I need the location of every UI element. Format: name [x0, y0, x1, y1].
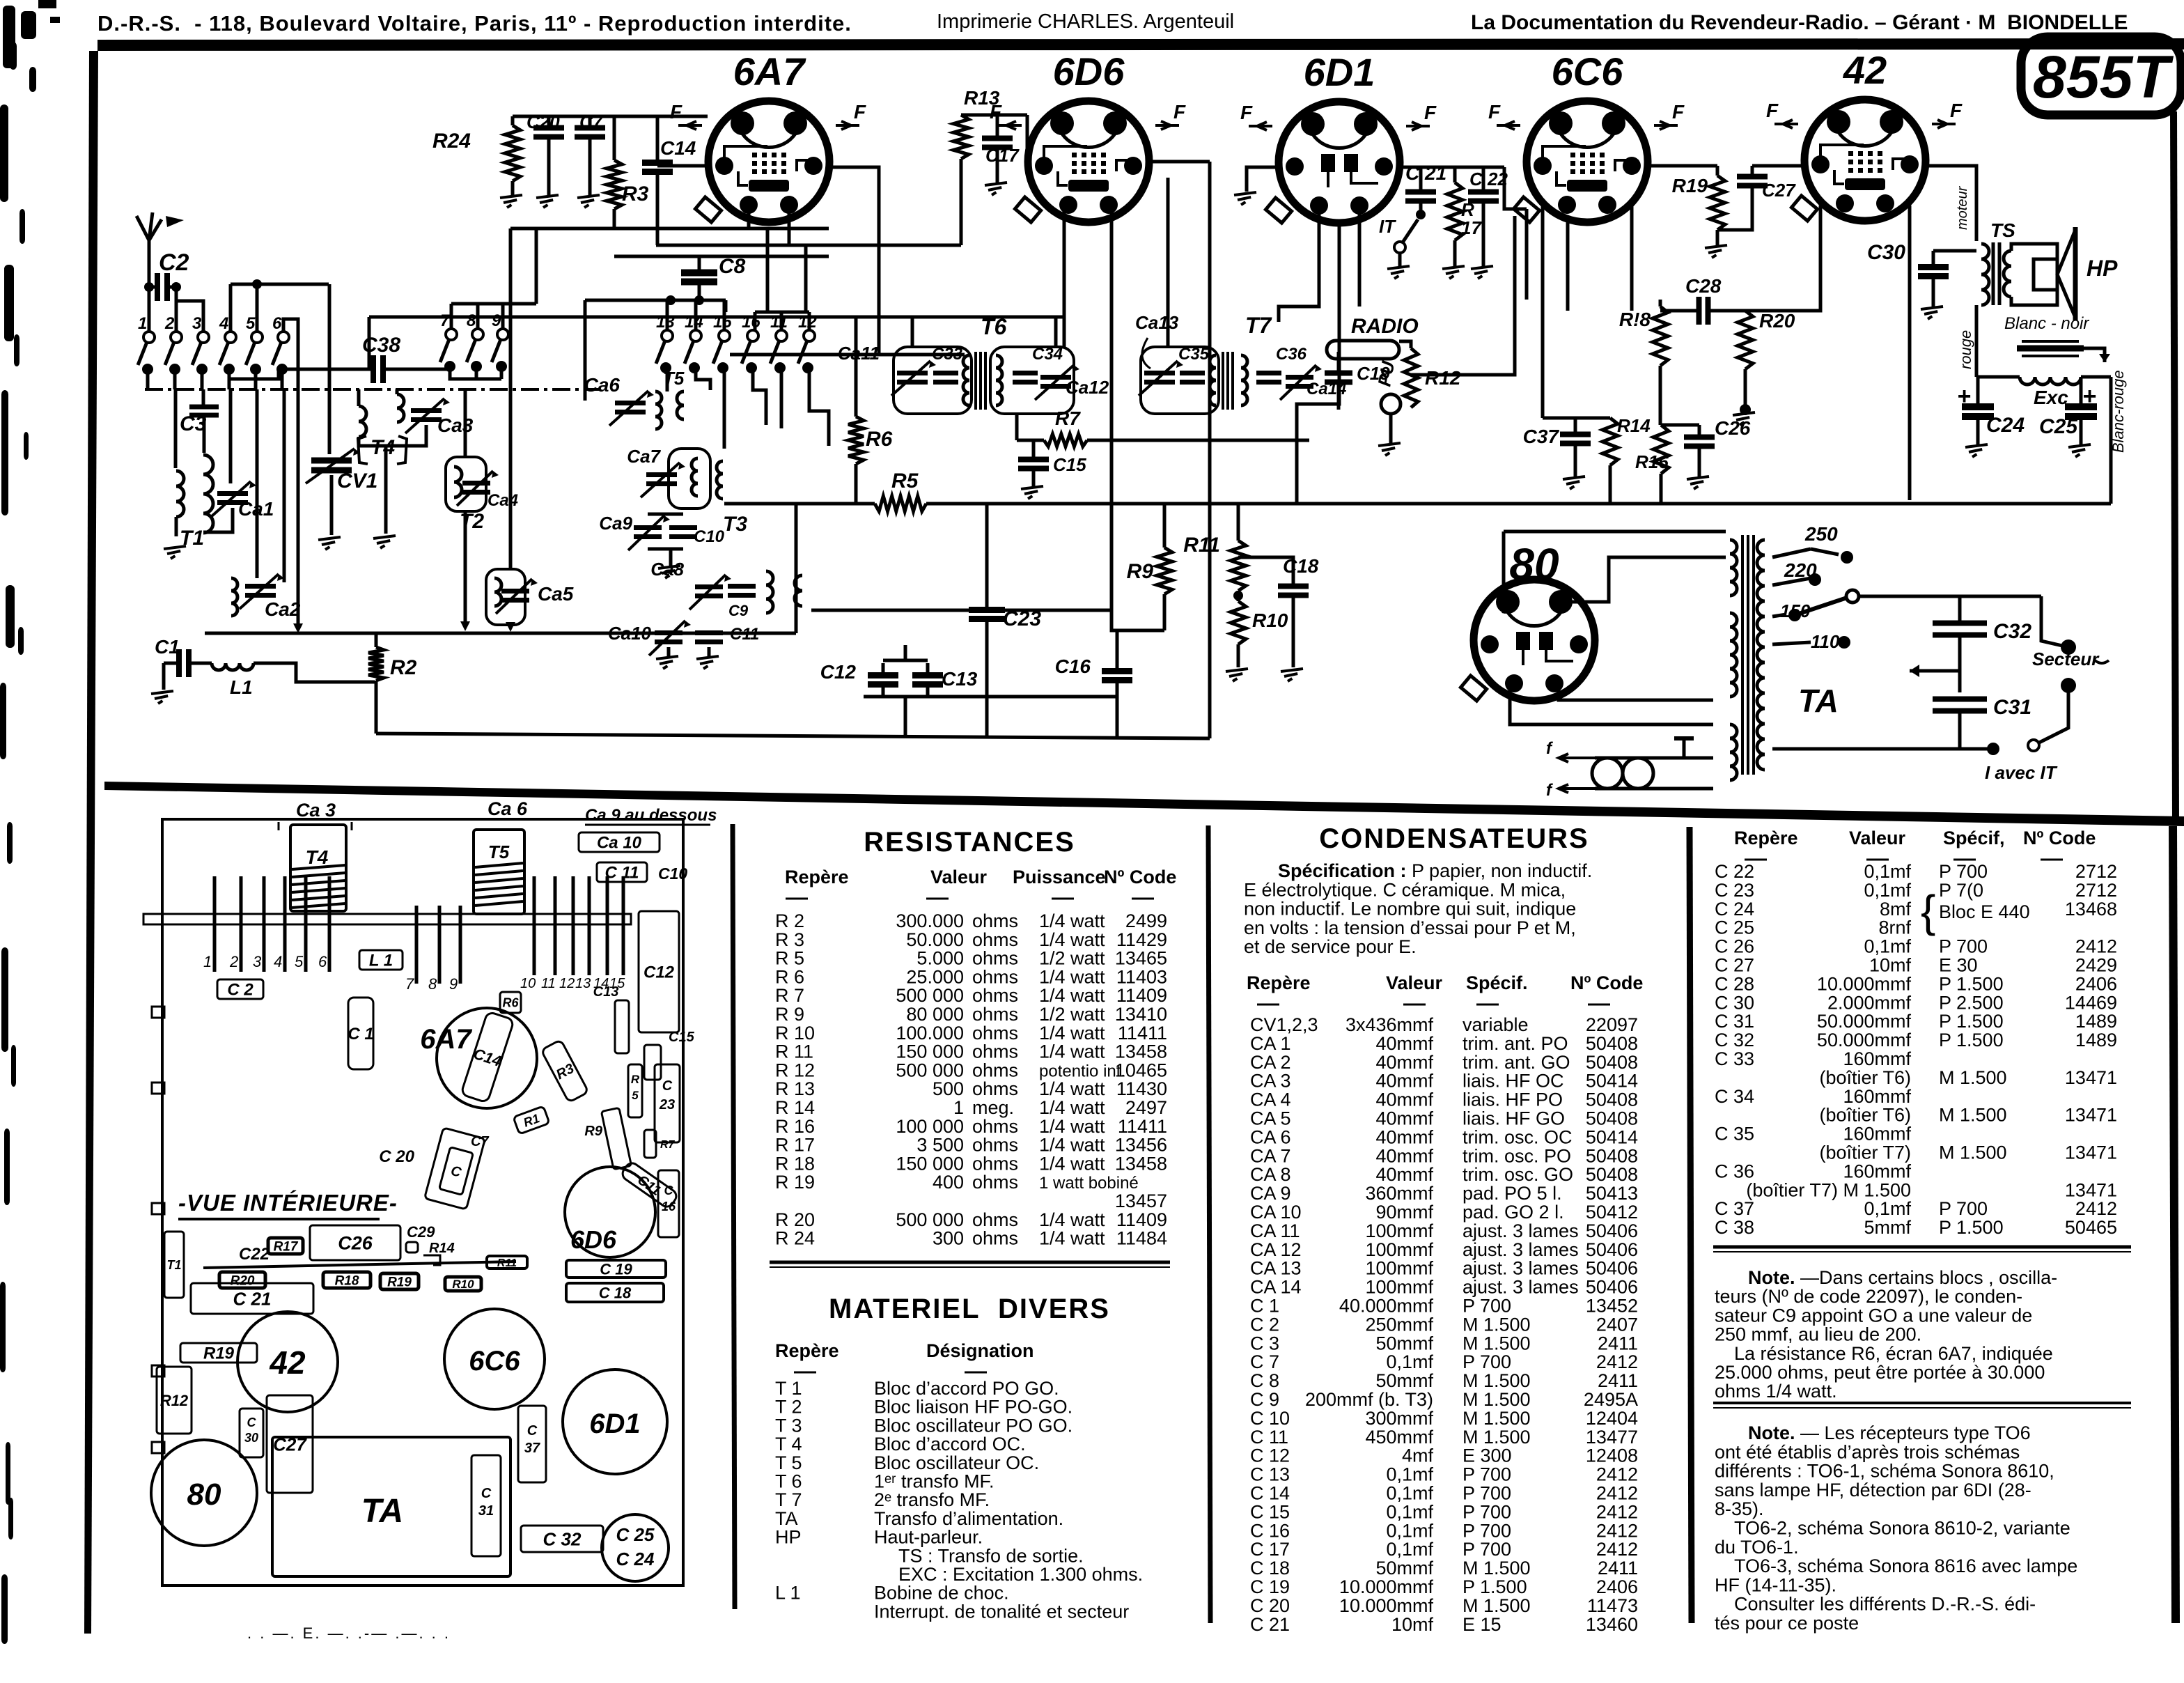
chassis pin lines 1-6	[213, 876, 217, 972]
svg-text:C: C	[664, 1184, 674, 1197]
svg-text:6C6: 6C6	[469, 1346, 520, 1376]
wire bus AVC	[205, 632, 796, 635]
svg-text:C: C	[527, 1423, 538, 1438]
svg-text:C34: C34	[1032, 345, 1063, 364]
wire left riser x428	[297, 390, 300, 628]
svg-text:30: 30	[244, 1431, 258, 1445]
svg-text:. . —. E. —. .-— .—. . .: . . —. E. —. .-— .—. . .	[247, 1624, 451, 1642]
svg-text:R17: R17	[274, 1239, 299, 1254]
svg-text:C25: C25	[2039, 415, 2078, 438]
svg-text:11: 11	[541, 976, 556, 991]
capacitor C26	[1684, 435, 1715, 440]
svg-text:T3: T3	[723, 513, 747, 536]
resistor R24	[505, 125, 520, 181]
svg-text:13457: 13457	[1115, 1190, 1167, 1211]
TA rect	[272, 1437, 510, 1576]
wire bus H3	[656, 244, 961, 247]
svg-text:C: C	[247, 1416, 257, 1429]
C2 box	[217, 979, 263, 1000]
svg-text:C37: C37	[1523, 426, 1560, 447]
svg-text:différents : TO6-1, schéma Son: différents : TO6-1, schéma Sonora 8610,	[1715, 1461, 2054, 1482]
svg-text:37: 37	[524, 1441, 540, 1456]
svg-text:5: 5	[246, 314, 256, 333]
svg-text:C36: C36	[1276, 345, 1307, 364]
svg-text:R14: R14	[429, 1241, 455, 1256]
wire selector to C32	[1859, 595, 2041, 598]
svg-text:EXC : Excitation 1.300 ohms.: EXC : Excitation 1.300 ohms.	[898, 1564, 1143, 1585]
left margin scan noise	[3, 6, 15, 68]
variable capacitor CV1	[328, 284, 331, 454]
capacitor C32	[1933, 621, 1987, 626]
resistor R13	[953, 115, 969, 159]
field coil EXC	[2020, 377, 2081, 385]
R12 rect	[157, 1367, 192, 1434]
svg-text:16: 16	[662, 1200, 676, 1213]
chassis interior view outline	[162, 819, 683, 1585]
svg-text:F: F	[854, 101, 866, 123]
output terminal bars	[2022, 340, 2079, 343]
resistor R10	[1231, 601, 1246, 644]
svg-text:TO6-3, schéma Sonora 8616 avec: TO6-3, schéma Sonora 8616 avec lampe	[1734, 1556, 2077, 1576]
wire return bus	[376, 734, 1210, 738]
trimmer Ca1	[229, 389, 233, 483]
svg-text:CONDENSATEURS: CONDENSATEURS	[1319, 823, 1589, 854]
resistor R5	[875, 496, 926, 511]
svg-text:TS : Transfo de sortie.: TS : Transfo de sortie.	[898, 1545, 1084, 1566]
chassis pin lines 10-15	[533, 876, 536, 975]
svg-text:La résistance R6, écran 6A7, i: La résistance R6, écran 6A7, indiquée	[1734, 1343, 2053, 1364]
speaker HP	[2034, 259, 2057, 290]
svg-text:ohms 1/4 watt.: ohms 1/4 watt.	[1715, 1381, 1837, 1402]
switch riser wires	[175, 287, 178, 332]
C37 rect	[518, 1406, 546, 1482]
resistor R11	[1231, 541, 1246, 591]
capacitor C3	[202, 389, 205, 406]
wire bus H6	[730, 353, 965, 357]
capacitor C30	[1918, 264, 1949, 270]
svg-text:C26: C26	[338, 1233, 373, 1254]
svg-text:C12: C12	[820, 661, 857, 683]
svg-text:C 22: C 22	[1469, 169, 1508, 189]
6C6 chassis circle	[444, 1309, 545, 1409]
wire bus B+	[724, 502, 875, 506]
svg-text:5: 5	[295, 953, 304, 970]
svg-text:R7: R7	[660, 1139, 676, 1151]
wire T2 down	[464, 511, 467, 623]
C23 rect	[655, 1064, 680, 1142]
svg-text:C14: C14	[660, 137, 696, 159]
svg-text:F: F	[1240, 102, 1253, 123]
svg-text:F: F	[1766, 100, 1779, 121]
T4 block	[290, 825, 346, 911]
svg-text:TS: TS	[1990, 219, 2015, 241]
svg-text:E électrolytique. C céramique.: E électrolytique. C céramique. M mica,	[1244, 879, 1566, 900]
wire 6A7 pin drops	[747, 209, 751, 228]
capacitor C22	[1468, 189, 1499, 195]
svg-text:TA: TA	[361, 1493, 403, 1530]
wire bus H2	[510, 227, 829, 231]
wire antenna down	[148, 279, 151, 332]
svg-text:rouge: rouge	[1957, 330, 1974, 369]
svg-text:13: 13	[575, 976, 591, 991]
svg-text:6A7: 6A7	[420, 1024, 472, 1055]
svg-text:Ca12: Ca12	[1066, 377, 1109, 398]
svg-text:F: F	[1173, 101, 1186, 123]
svg-text:Note. — Les récepteurs type TO: Note. — Les récepteurs type TO6	[1748, 1422, 2031, 1443]
resistor R17	[1447, 183, 1462, 240]
svg-text:Ca 9 au dessous: Ca 9 au dessous	[585, 806, 717, 825]
svg-text:9: 9	[449, 975, 458, 993]
capacitor C7	[575, 125, 605, 131]
dash bus	[145, 388, 599, 391]
svg-text:R5: R5	[891, 470, 919, 493]
T5 block	[474, 830, 524, 914]
R3 diag	[541, 1039, 588, 1102]
capacitor C18	[1278, 584, 1309, 589]
svg-text:6: 6	[272, 314, 282, 333]
svg-text:Interrupt. de tonalité et sect: Interrupt. de tonalité et secteur	[874, 1601, 1129, 1622]
band switch contacts 1-6	[143, 332, 155, 343]
C16 rect	[658, 1170, 679, 1237]
svg-text:(boîtier T7)M 1.50013471: (boîtier T7)M 1.50013471	[1819, 1142, 2117, 1163]
wires 42	[1745, 205, 1820, 311]
svg-text:L1: L1	[230, 676, 253, 698]
svg-text:F: F	[1488, 101, 1501, 123]
svg-text:R6: R6	[502, 995, 519, 1009]
dial rail	[143, 914, 631, 924]
trimmer Ca10 + cap C11	[655, 630, 682, 635]
svg-text:R12: R12	[1425, 367, 1461, 389]
svg-text:L 1: L 1	[369, 952, 393, 970]
svg-text:855T: 855T	[2033, 44, 2174, 111]
svg-text:CV1: CV1	[337, 470, 377, 493]
R7 rect	[644, 1130, 656, 1158]
capacitor C16	[1102, 668, 1132, 674]
svg-text:RADIO: RADIO	[1351, 315, 1419, 338]
potentiometer R12	[1404, 348, 1418, 408]
svg-text:T5: T5	[488, 841, 510, 862]
C20 C7 cluster	[424, 1128, 485, 1209]
chassis arrow	[1910, 669, 1960, 673]
svg-text:du TO6-1.: du TO6-1.	[1715, 1537, 1799, 1558]
svg-text:Ca 6: Ca 6	[487, 798, 528, 819]
svg-text:6C6: 6C6	[1552, 49, 1624, 93]
svg-text:C 32: C 32	[543, 1528, 582, 1549]
svg-text:R19: R19	[203, 1344, 235, 1363]
R5 rect	[628, 1064, 642, 1117]
resistor R19	[1710, 176, 1725, 230]
svg-text:(boîtier T6)M 1.50013471: (boîtier T6)M 1.50013471	[1819, 1105, 2117, 1126]
svg-text:Ca 3: Ca 3	[296, 800, 336, 821]
6A7 chassis circle	[437, 1008, 537, 1108]
svg-text:12: 12	[559, 976, 575, 991]
model number box 855T	[2021, 37, 2181, 115]
svg-text:T6: T6	[981, 314, 1007, 339]
capacitor C8	[681, 270, 717, 277]
switch I avec IT	[2039, 685, 2068, 743]
svg-text:C17: C17	[985, 145, 1020, 166]
arrow to terminal	[2084, 348, 2105, 362]
wire 6D1 bottom to RADIO	[1297, 223, 1339, 504]
svg-text:Ca4: Ca4	[487, 491, 518, 510]
table separator 2	[1208, 825, 1210, 1623]
svg-text:80: 80	[187, 1478, 221, 1512]
trimmer Ca4	[462, 481, 490, 486]
svg-text:D.-R.-S. - 118, Boulevard Vol: D.-R.-S. - 118, Boulevard Voltaire, Pari…	[97, 11, 852, 36]
top feed wire	[513, 115, 708, 118]
capacitors C12 C13	[868, 672, 898, 678]
header rule	[97, 38, 2184, 51]
transformer TA	[1741, 535, 1744, 775]
svg-text:C32: C32	[1993, 620, 2031, 643]
svg-text:1: 1	[138, 314, 147, 333]
antenna arrow mark	[166, 216, 184, 227]
svg-text:HF (14-11-35).: HF (14-11-35).	[1715, 1574, 1836, 1595]
wires 6D6 pins	[1063, 205, 1066, 347]
svg-text:C: C	[481, 1486, 492, 1501]
chassis side tabs	[152, 1007, 164, 1018]
capacitor C23	[969, 607, 1005, 613]
trimmer Ca9 + cap C10	[634, 525, 662, 530]
svg-text:C27: C27	[1762, 180, 1796, 201]
svg-text:Bloc E 440: Bloc E 440	[1939, 901, 2030, 922]
6D6 chassis circle	[565, 1167, 655, 1257]
svg-text:C 18: C 18	[599, 1284, 632, 1301]
resistor R16	[1653, 425, 1669, 474]
svg-text:17: 17	[1461, 217, 1482, 238]
svg-text:R19: R19	[1672, 175, 1708, 196]
TA bottom wire	[1772, 747, 1993, 751]
capacitor C15	[1018, 457, 1049, 463]
tube 6A7	[695, 101, 829, 222]
svg-text:T7: T7	[1245, 313, 1273, 338]
wires osc block	[666, 367, 669, 391]
svg-text:6: 6	[318, 953, 327, 970]
svg-text:Ca5: Ca5	[538, 583, 574, 605]
T1 module	[164, 1232, 184, 1298]
svg-text:C11: C11	[730, 625, 759, 644]
svg-text:sateur C9 appoint GO a une val: sateur C9 appoint GO a une valeur de	[1715, 1305, 2032, 1326]
trimmer Ca3	[397, 394, 404, 422]
resistor R14	[1602, 418, 1618, 465]
80 chassis circle	[151, 1440, 257, 1546]
svg-text:C 1: C 1	[348, 1025, 373, 1044]
svg-text:Ca 10: Ca 10	[597, 834, 642, 853]
svg-text:250: 250	[1804, 523, 1838, 545]
wire switch manifold	[585, 299, 726, 302]
divider rule between schematic and tables	[104, 782, 2184, 826]
tube 6C6	[1513, 101, 1648, 222]
right border thin (schematic)	[2174, 111, 2176, 819]
svg-text:C13: C13	[593, 984, 619, 1000]
svg-text:C31: C31	[1993, 696, 2031, 719]
capacitor C19	[1325, 371, 1352, 376]
svg-text:TO6-2, schéma Sonora 8610-2, v: TO6-2, schéma Sonora 8610-2, variante	[1734, 1518, 2070, 1539]
svg-text:250 mmf, au lieu de 200.: 250 mmf, au lieu de 200.	[1715, 1324, 1921, 1345]
tube 80	[1460, 580, 1595, 701]
capacitor C17	[982, 136, 1013, 141]
svg-text:R: R	[631, 1073, 640, 1086]
svg-text:et de service pour E.: et de service pour E.	[1244, 936, 1417, 957]
trimmer Ca6	[615, 401, 646, 405]
wire 6A7 left pin	[657, 164, 708, 168]
svg-text:C24: C24	[1986, 414, 2025, 437]
svg-text:Ca7: Ca7	[627, 446, 661, 467]
wire 7-9 dots drop	[450, 366, 501, 379]
svg-text:Ca8: Ca8	[650, 559, 684, 580]
svg-text:8: 8	[428, 975, 437, 993]
transformer T1	[174, 389, 178, 468]
svg-text:C1: C1	[155, 636, 180, 658]
resistor R18	[1653, 307, 1668, 366]
R1 diag	[513, 1106, 549, 1134]
ground CV1	[318, 537, 341, 540]
ground T1	[164, 546, 186, 549]
svg-text:9: 9	[492, 311, 501, 330]
resistor R9	[1157, 548, 1172, 594]
svg-text:C30: C30	[1867, 241, 1905, 264]
svg-text:C13: C13	[942, 668, 978, 690]
svg-text:C10: C10	[658, 864, 687, 883]
svg-text:C15: C15	[1053, 454, 1086, 475]
coil above T4	[359, 406, 366, 437]
svg-text:RESISTANCES: RESISTANCES	[864, 827, 1075, 858]
resistor R20	[1738, 311, 1753, 369]
C30 rect	[240, 1409, 263, 1457]
svg-text:R2: R2	[390, 656, 417, 679]
svg-text:6A7: 6A7	[733, 49, 807, 93]
svg-text:25.000 ohms, peut être portée: 25.000 ohms, peut être portée à 30.000	[1715, 1362, 2045, 1383]
svg-text:R20: R20	[231, 1273, 255, 1288]
C27 rect	[267, 1395, 313, 1493]
svg-text:non inductif. Le nombre qui su: non inductif. Le nombre qui suit, indiqu…	[1244, 899, 1576, 920]
R9 diag	[601, 1108, 631, 1170]
wire bus H4	[614, 255, 829, 258]
resistor R2	[368, 647, 384, 681]
svg-text:I avec IT: I avec IT	[1985, 762, 2058, 783]
svg-text:C16: C16	[1055, 656, 1091, 677]
svg-text:Ca6: Ca6	[584, 374, 621, 396]
svg-text:8-35).: 8-35).	[1715, 1498, 1764, 1519]
svg-text:MATERIEL DIVERS: MATERIEL DIVERS	[829, 1294, 1110, 1324]
capacitor C14	[642, 160, 673, 166]
wire bus H5	[369, 316, 1064, 319]
svg-text:R10: R10	[452, 1278, 474, 1291]
svg-text:2: 2	[164, 314, 175, 333]
svg-text:RepèreValeurPuissanceNº Code: RepèreValeurPuissanceNº Code	[785, 867, 1176, 887]
svg-text:Note. —Dans certains blocs , o: Note. —Dans certains blocs , oscilla-	[1748, 1267, 2057, 1288]
selector arm	[1795, 598, 1847, 615]
svg-text:F: F	[1950, 100, 1963, 121]
svg-text:C8: C8	[719, 255, 746, 278]
svg-text:ont été établis d’après trois: ont été établis d’après trois schémas	[1715, 1441, 2020, 1462]
svg-text:Ca10: Ca10	[608, 623, 652, 644]
svg-text:Ca11: Ca11	[838, 343, 880, 364]
L1 box	[359, 950, 403, 970]
svg-text:R13: R13	[964, 87, 1000, 109]
svg-text:C22: C22	[239, 1245, 270, 1264]
long vertical riser	[509, 228, 513, 568]
svg-text:R16: R16	[1635, 451, 1669, 472]
svg-text:31: 31	[478, 1503, 494, 1519]
svg-text:C10: C10	[694, 527, 725, 546]
coil T3	[669, 449, 710, 509]
svg-text:La Documentation du Revendeur-: La Documentation du Revendeur-Radio. – G…	[1471, 11, 2128, 34]
C15 rect	[644, 1045, 661, 1080]
wire 6C6 plate	[1630, 205, 1634, 311]
resistor R6	[848, 417, 864, 464]
svg-text:-VUE INTÉRIEURE-: -VUE INTÉRIEURE-	[178, 1190, 398, 1216]
svg-text:R10: R10	[1252, 610, 1288, 631]
C1 rect	[348, 998, 373, 1069]
svg-text:6D6: 6D6	[570, 1225, 617, 1254]
C32 rect	[521, 1526, 603, 1552]
band switch contacts 13-12	[662, 330, 673, 341]
antenna	[148, 240, 151, 279]
svg-text:Ca2: Ca2	[265, 598, 301, 620]
trimmer Ca5 with coil	[486, 569, 525, 625]
resistor R7	[1044, 434, 1087, 447]
svg-text:Blanc - noir: Blanc - noir	[2004, 314, 2089, 333]
svg-text:R!8: R!8	[1619, 309, 1651, 330]
svg-text:7: 7	[405, 975, 414, 993]
svg-text:6D1: 6D1	[589, 1409, 640, 1439]
C31 rect	[471, 1455, 501, 1556]
svg-text:F: F	[1672, 101, 1685, 123]
parts row 2	[219, 1272, 265, 1288]
svg-text:Imprimerie CHARLES. Argenteuil: Imprimerie CHARLES. Argenteuil	[937, 10, 1234, 33]
band switch contacts 7-9	[446, 329, 457, 340]
svg-text:10: 10	[520, 976, 536, 991]
capacitor C27	[1737, 174, 1768, 180]
svg-text:C2: C2	[159, 249, 189, 276]
svg-text:F: F	[1424, 102, 1437, 123]
svg-text:110: 110	[1811, 631, 1840, 652]
svg-text:tés pour ce poste: tés pour ce poste	[1715, 1613, 1859, 1634]
capacitor C20	[533, 125, 564, 131]
svg-text:7: 7	[440, 311, 451, 330]
svg-text:C9: C9	[728, 602, 749, 619]
transformer T2	[446, 457, 486, 511]
svg-text:C35: C35	[1178, 345, 1210, 364]
svg-text:C7: C7	[471, 1134, 489, 1149]
svg-text:C33: C33	[932, 345, 963, 364]
tube 42	[1791, 100, 1926, 221]
svg-text:moteur: moteur	[1955, 185, 1970, 230]
svg-text:1: 1	[203, 953, 212, 970]
svg-text:4: 4	[274, 953, 282, 970]
svg-text:6D6: 6D6	[1053, 49, 1125, 93]
svg-text:C15: C15	[669, 1030, 695, 1045]
svg-text:C 25: C 25	[616, 1524, 655, 1545]
svg-text:PU: PU	[1373, 359, 1398, 388]
C12 rect	[639, 911, 679, 1032]
42 chassis circle	[237, 1312, 338, 1412]
HT wires to 80	[1504, 530, 1726, 534]
svg-text:3: 3	[253, 953, 262, 970]
svg-text:teurs (Nº de code 22097), le c: teurs (Nº de code 22097), le conden-	[1715, 1286, 2022, 1307]
svg-text:Spécification : P papier, non: Spécification : P papier, non inductif.	[1278, 860, 1592, 881]
svg-text:R9: R9	[584, 1124, 602, 1139]
svg-text:T4: T4	[306, 846, 329, 868]
switch IT	[1416, 210, 1426, 219]
svg-text:2: 2	[229, 953, 238, 970]
svg-text:C 21: C 21	[233, 1288, 272, 1309]
trimmer Ca8 + cap C9	[695, 584, 723, 589]
svg-text:C28: C28	[1685, 275, 1722, 297]
wire risers below contacts	[146, 368, 150, 389]
svg-text:5: 5	[632, 1089, 639, 1102]
